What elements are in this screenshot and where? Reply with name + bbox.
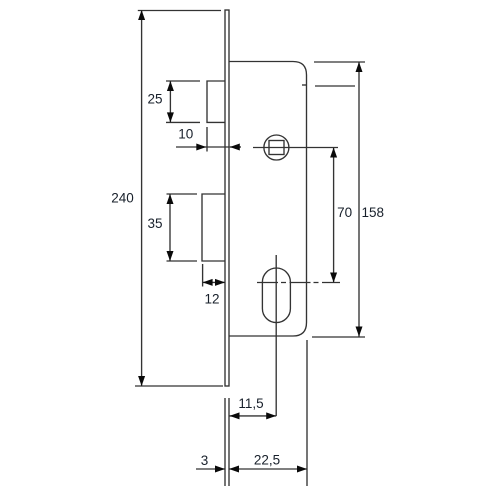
dimension line 22,5 — [229, 468, 307, 470]
arrowhead 240 top — [138, 10, 145, 20]
svg-text:35: 35 — [147, 216, 162, 231]
arrowhead 70 bottom — [330, 273, 337, 283]
svg-text:3: 3 — [201, 453, 209, 468]
arrowhead 240 bottom — [138, 376, 145, 386]
svg-text:11,5: 11,5 — [238, 396, 263, 411]
svg-text:22,5: 22,5 — [254, 453, 280, 468]
extension lines for 35 — [167, 193, 198, 195]
extension line body top for 158 — [314, 61, 365, 63]
svg-text:240: 240 — [111, 191, 134, 206]
lock body — [229, 62, 307, 337]
dimension line 12 — [203, 281, 225, 283]
dimension line 11,5 — [230, 415, 277, 417]
arrowhead 158 bottom — [356, 327, 363, 337]
arrowhead 22,5 right-pointing — [297, 466, 307, 473]
arrowhead 25 bottom — [167, 112, 174, 122]
dimension line 240 — [141, 10, 143, 386]
cylinder oval hole — [262, 268, 290, 323]
dimension line 10 — [176, 146, 230, 148]
dimension line 70 — [333, 148, 335, 283]
arrowhead 11,5 right-pointing — [266, 412, 276, 419]
dimension line 10 right tail — [230, 146, 241, 148]
arrowhead 10 left-pointing — [230, 144, 240, 151]
arrowhead 10 right-pointing — [196, 144, 206, 151]
arrowhead 70 top — [330, 148, 337, 158]
extension line body right bottom — [306, 340, 308, 486]
dimension line 3 left part — [196, 468, 225, 470]
extension line latch left for 10 — [206, 127, 208, 152]
latch bolt — [207, 81, 225, 122]
spindle follower circle — [264, 135, 289, 160]
spindle square hole — [269, 141, 284, 155]
case inner line — [315, 85, 355, 87]
svg-text:158: 158 — [362, 205, 385, 220]
extension line cylinder center vertical — [275, 255, 277, 416]
extension line deadbolt left for 12 — [202, 264, 204, 287]
extension line top for 240 — [138, 10, 221, 12]
arrowhead 35 bottom — [167, 251, 174, 261]
dimension line 158 — [358, 62, 360, 337]
svg-text:12: 12 — [204, 292, 219, 307]
faceplate — [225, 10, 229, 386]
arrowhead 12 right-pointing — [215, 279, 225, 286]
svg-text:10: 10 — [178, 127, 193, 142]
deadbolt — [202, 194, 225, 261]
svg-text:25: 25 — [147, 92, 162, 107]
extension line bottom for 240 — [135, 385, 223, 387]
arrowhead 3 right-pointing — [215, 466, 225, 473]
extension lines for 25 — [166, 80, 200, 82]
arrowhead 12 left-pointing — [203, 279, 213, 286]
dimension line 35 — [169, 194, 171, 261]
case tick at right edge — [302, 84, 307, 86]
extension line body bottom for 158 — [312, 336, 365, 338]
arrowhead 35 top — [167, 194, 174, 204]
dimension line 25 — [169, 81, 171, 122]
arrowhead 25 top — [167, 81, 174, 91]
spindle center line — [253, 147, 338, 149]
extension lines faceplate bottom — [224, 398, 226, 486]
arrowhead 158 top — [356, 62, 363, 72]
cylinder center dash-dot line — [257, 282, 340, 284]
arrowhead 11,5 left-pointing — [230, 412, 240, 419]
arrowhead 22,5 left-pointing — [229, 466, 239, 473]
svg-text:70: 70 — [337, 205, 352, 220]
